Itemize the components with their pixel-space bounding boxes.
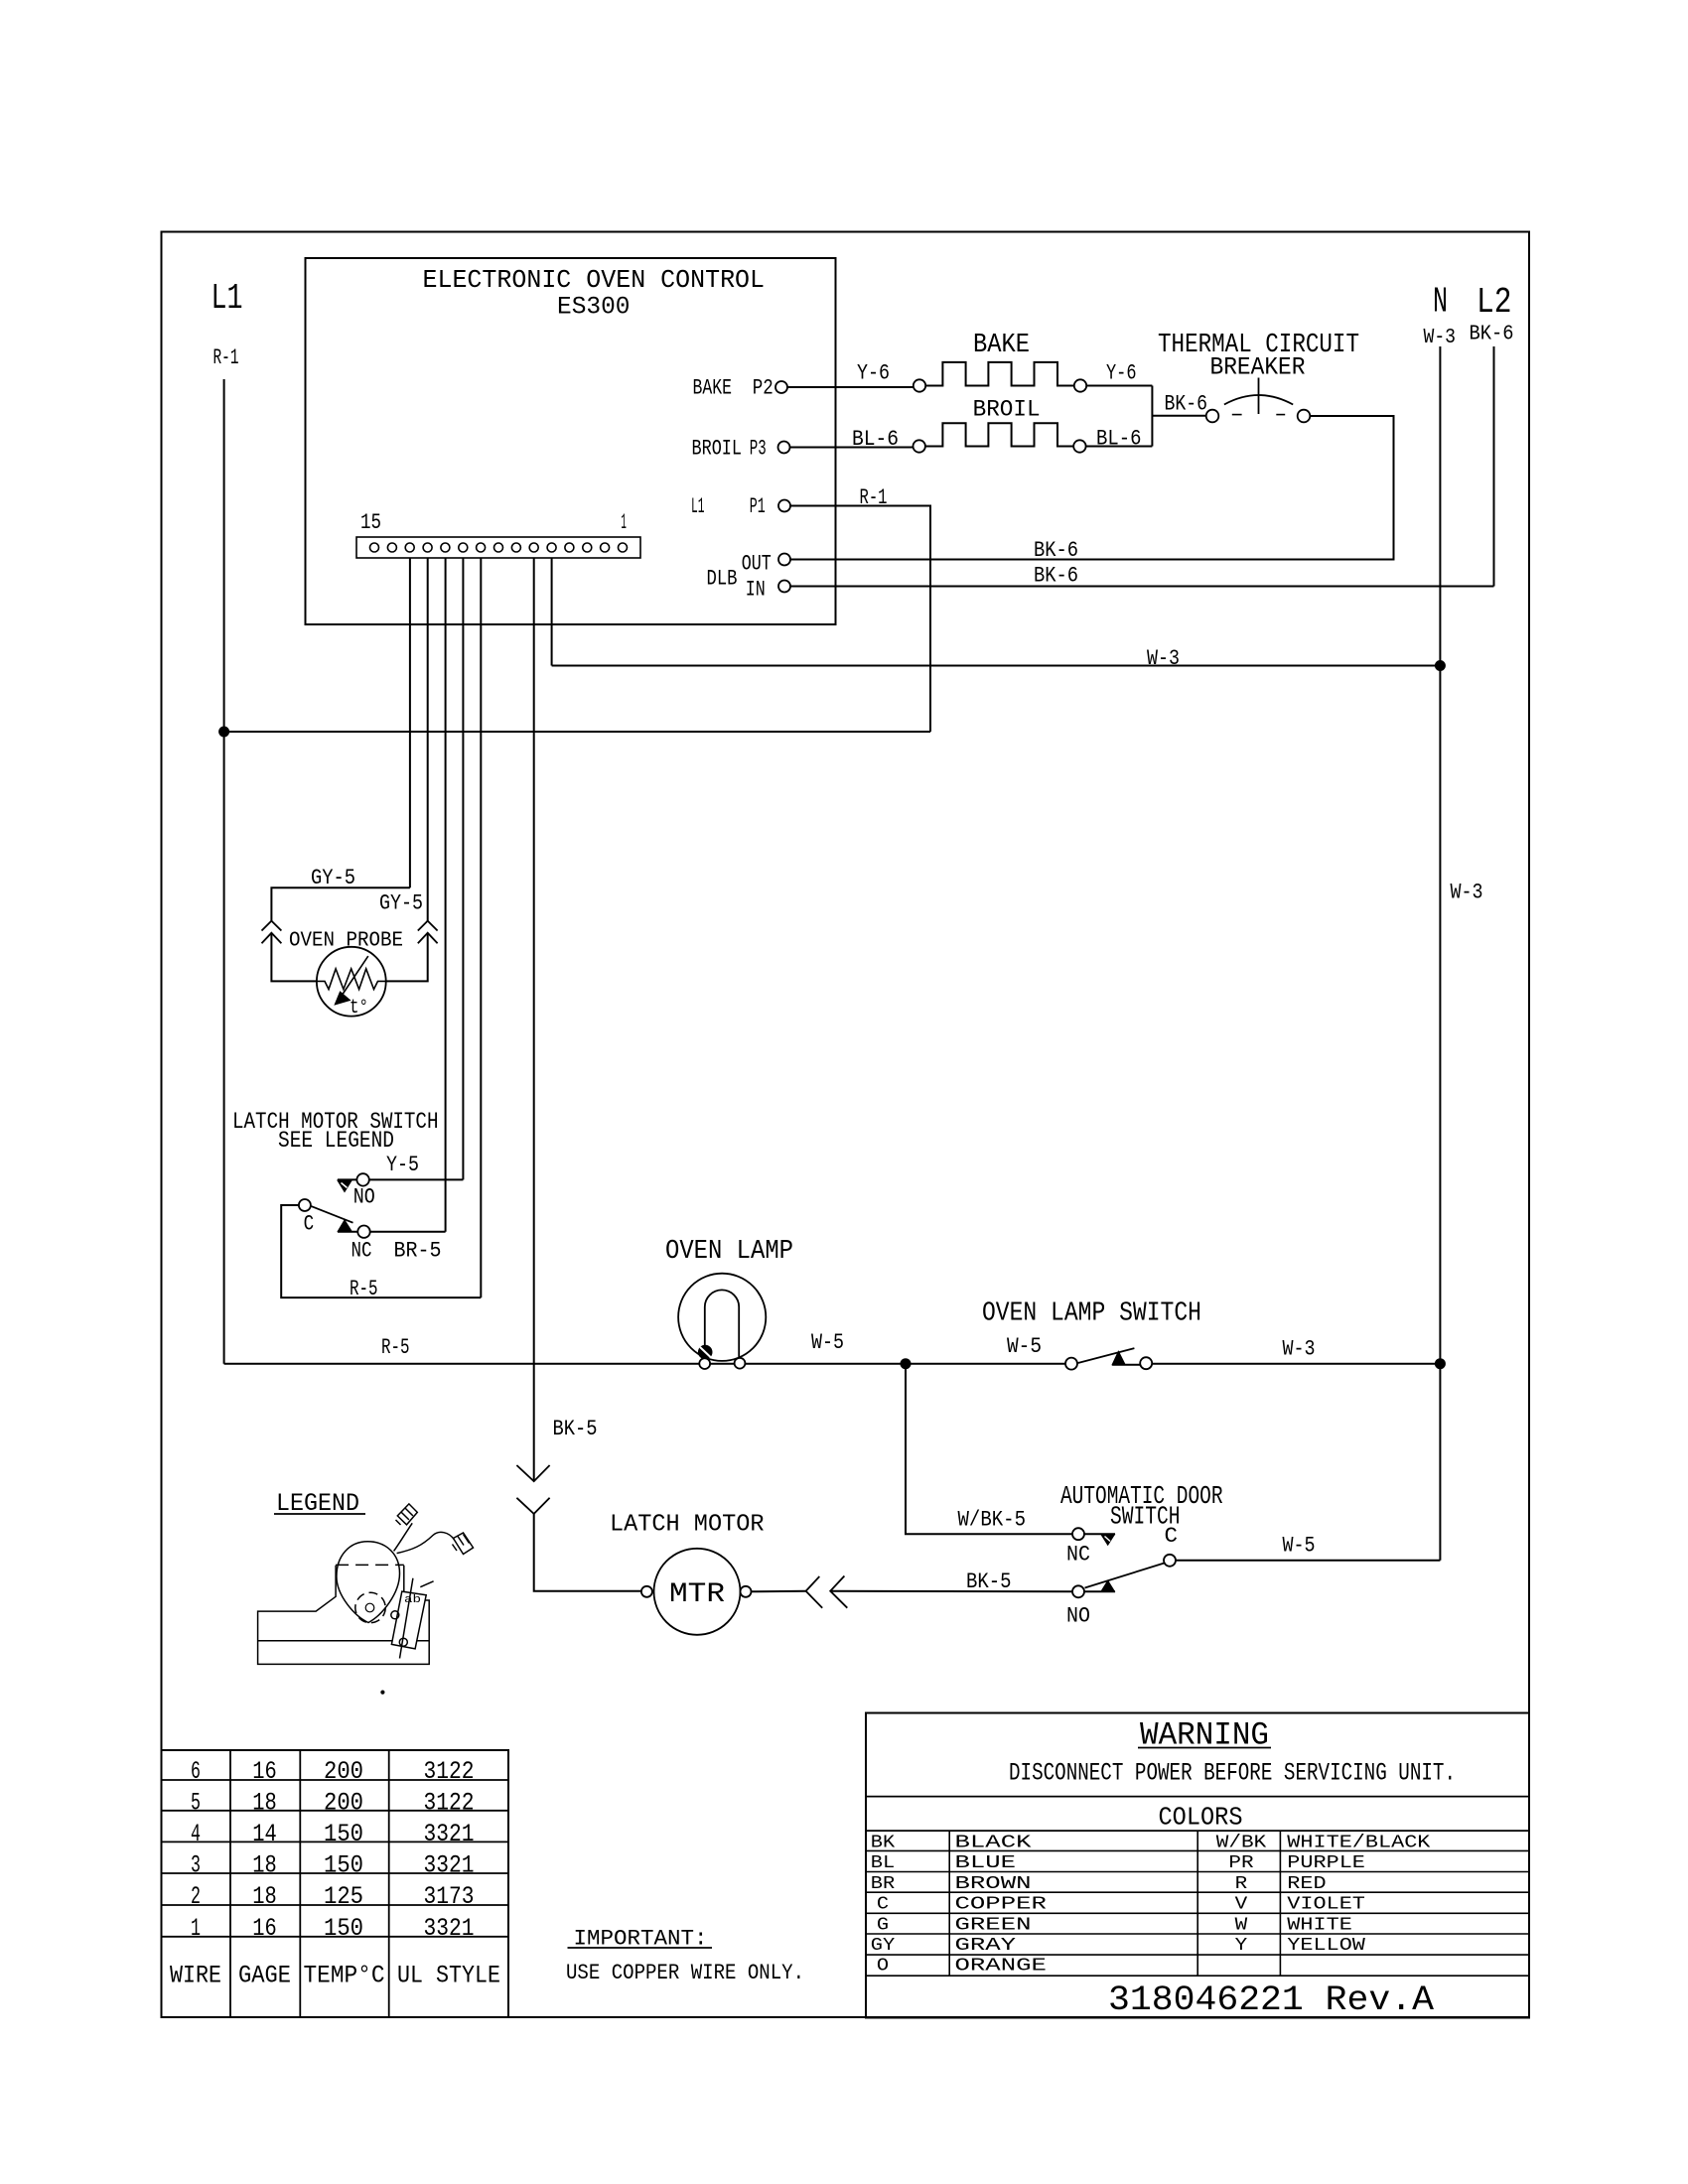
junction W-3 rail top xyxy=(1435,661,1445,671)
oven lamp switch S2 left terminal xyxy=(1065,1358,1077,1370)
door switch NC marker xyxy=(1101,1535,1115,1546)
lamp terminal right xyxy=(735,1358,746,1369)
svg-text:18: 18 xyxy=(252,1851,277,1880)
bake element left terminal xyxy=(914,379,925,391)
svg-text:OUT: OUT xyxy=(742,552,772,577)
wire BK-5 to latch motor xyxy=(534,1514,641,1591)
wire W-5 C to rail xyxy=(1176,1560,1440,1562)
svg-text:YELLOW: YELLOW xyxy=(1287,1936,1365,1956)
svg-text:Y-6: Y-6 xyxy=(1106,361,1137,386)
terminal P1 xyxy=(778,500,790,512)
oven lamp switch S2 right terminal xyxy=(1140,1357,1152,1369)
svg-text:R-1: R-1 xyxy=(213,345,239,370)
svg-text:W-3: W-3 xyxy=(1147,646,1180,671)
wire door NC stub xyxy=(1084,1533,1115,1535)
svg-text:16: 16 xyxy=(252,1757,277,1786)
terminal P3 xyxy=(778,442,790,454)
svg-text:UL STYLE: UL STYLE xyxy=(397,1962,500,1990)
legend reference dot xyxy=(381,1691,384,1694)
wire latch NC to pin5 xyxy=(370,1231,446,1233)
svg-text:3: 3 xyxy=(191,1851,201,1880)
svg-text:BL: BL xyxy=(871,1853,895,1873)
svg-text:BR: BR xyxy=(871,1874,896,1894)
svg-text:OVEN LAMP SWITCH: OVEN LAMP SWITCH xyxy=(982,1299,1201,1329)
terminal P2 xyxy=(775,381,787,393)
warning box xyxy=(866,1713,1529,2018)
probe thermistor zigzag xyxy=(317,969,386,990)
svg-text:MTR: MTR xyxy=(669,1579,725,1610)
svg-text:PR: PR xyxy=(1228,1853,1253,1873)
breaker actuator tick xyxy=(1258,378,1260,415)
broil element left terminal xyxy=(914,440,925,452)
wire latch NO to pin6 xyxy=(369,1178,463,1180)
svg-text:N: N xyxy=(1433,282,1448,323)
svg-text:BK-5: BK-5 xyxy=(966,1570,1012,1594)
svg-text:W-5: W-5 xyxy=(1283,1534,1316,1559)
svg-text:W/BK: W/BK xyxy=(1216,1834,1267,1853)
svg-text:BAKE: BAKE xyxy=(973,331,1030,360)
wire bake/broil junction vertical xyxy=(1151,386,1153,447)
terminal DLB IN xyxy=(778,581,790,593)
bake element right terminal xyxy=(1074,379,1086,391)
svg-text:5: 5 xyxy=(191,1788,201,1817)
svg-text:BAKE: BAKE xyxy=(693,376,733,401)
latch switch NC marker xyxy=(338,1220,352,1231)
wire pin10 drop BK-5 xyxy=(533,558,535,1481)
svg-text:W-3: W-3 xyxy=(1283,1337,1316,1362)
wire bake output xyxy=(1086,385,1152,387)
svg-text:3122: 3122 xyxy=(424,1757,475,1786)
wire R-5 L1 to lamp switch xyxy=(224,1363,1066,1365)
svg-text:WHITE/BLACK: WHITE/BLACK xyxy=(1287,1834,1430,1853)
wire N W-3 vertical rail xyxy=(1439,346,1441,1561)
svg-text:L1: L1 xyxy=(691,494,705,519)
wire pin3 drop GY-5 xyxy=(409,558,411,887)
svg-text:WHITE: WHITE xyxy=(1287,1915,1352,1935)
svg-text:16: 16 xyxy=(252,1914,277,1943)
svg-text:P3: P3 xyxy=(750,437,767,462)
wire pin6 drop Y-5 xyxy=(462,558,464,1179)
svg-text:3321: 3321 xyxy=(424,1851,475,1880)
svg-text:SEE LEGEND: SEE LEGEND xyxy=(278,1128,394,1154)
svg-text:O: O xyxy=(877,1957,889,1977)
wire BK-6 breaker to DLB OUT xyxy=(790,416,1394,560)
svg-text:R: R xyxy=(1235,1874,1248,1894)
svg-text:GREEN: GREEN xyxy=(955,1915,1032,1935)
oven lamp DS1 envelope xyxy=(678,1274,766,1361)
svg-text:2: 2 xyxy=(191,1882,201,1911)
svg-text:BL-6: BL-6 xyxy=(852,427,899,452)
svg-text:NO: NO xyxy=(1066,1604,1090,1629)
breaker CB1 left terminal xyxy=(1206,410,1219,423)
junction W-3 rail at lamp switch xyxy=(1435,1359,1445,1369)
svg-text:3321: 3321 xyxy=(424,1820,475,1848)
svg-text:C: C xyxy=(1165,1524,1179,1549)
svg-text:150: 150 xyxy=(324,1914,363,1943)
wire R-1 from P1 xyxy=(790,506,930,733)
svg-text:COPPER: COPPER xyxy=(955,1895,1048,1915)
warning box divider 2 xyxy=(866,1830,1529,1832)
svg-text:3122: 3122 xyxy=(424,1788,475,1817)
wire GY-5 left branch xyxy=(271,887,410,920)
svg-text:200: 200 xyxy=(324,1788,363,1817)
svg-text:200: 200 xyxy=(324,1757,363,1786)
svg-text:GAGE: GAGE xyxy=(238,1962,291,1990)
svg-text:18: 18 xyxy=(252,1882,277,1911)
latch motor left terminal xyxy=(641,1586,652,1597)
wire pin11 drop W-3 xyxy=(551,558,553,666)
latch switch NO marker xyxy=(338,1180,352,1192)
svg-text:TEMP°C: TEMP°C xyxy=(304,1962,385,1990)
wire gage table xyxy=(162,1750,509,2017)
latch switch S1 NC terminal xyxy=(357,1226,369,1238)
wire at lamp switch contact xyxy=(1112,1364,1140,1366)
svg-text:ES300: ES300 xyxy=(557,293,631,322)
svg-text:ab: ab xyxy=(404,1594,421,1606)
bake element R-BAKE heating coil xyxy=(925,362,1074,386)
lamp base dot xyxy=(698,1345,712,1359)
page border frame xyxy=(162,232,1530,2018)
wire pin5 drop BR-5 xyxy=(445,558,447,1232)
svg-text:3173: 3173 xyxy=(424,1882,475,1911)
probe arrowhead xyxy=(335,992,350,1005)
wire R-5 loop C to pin7 xyxy=(281,1205,481,1297)
svg-text:1: 1 xyxy=(621,510,627,535)
wire probe left lead xyxy=(271,933,317,982)
junction W-5 at lamp wire xyxy=(901,1359,911,1369)
svg-text:GY-5: GY-5 xyxy=(379,891,423,916)
wire pin7 drop R-5 xyxy=(480,558,482,1297)
svg-text:RED: RED xyxy=(1287,1874,1326,1894)
svg-text:ELECTRONIC OVEN CONTROL: ELECTRONIC OVEN CONTROL xyxy=(423,265,766,295)
oven probe RT1 body xyxy=(317,947,386,1017)
svg-text:PURPLE: PURPLE xyxy=(1287,1853,1365,1873)
WARNING underline xyxy=(1138,1747,1271,1749)
breaker CB1 right terminal xyxy=(1298,410,1311,423)
door switch S3 C terminal xyxy=(1164,1555,1176,1567)
junction L1 rail xyxy=(219,727,229,737)
wire door NO stub xyxy=(1084,1590,1115,1592)
svg-text:BL-6: BL-6 xyxy=(1096,427,1142,452)
wire BK-5 break to door NO xyxy=(830,1590,1072,1593)
LEGEND underline xyxy=(274,1513,365,1515)
svg-text:NC: NC xyxy=(352,1239,372,1264)
svg-text:W-5: W-5 xyxy=(1007,1334,1042,1359)
door switch blade NO-C xyxy=(1085,1564,1165,1588)
svg-text:4: 4 xyxy=(191,1820,201,1848)
connector strip J1 xyxy=(356,537,640,558)
electronic oven control box U1 xyxy=(306,258,836,624)
svg-text:DISCONNECT POWER BEFORE SERVIC: DISCONNECT POWER BEFORE SERVICING UNIT. xyxy=(1009,1759,1456,1788)
svg-text:USE COPPER WIRE ONLY.: USE COPPER WIRE ONLY. xyxy=(566,1961,804,1985)
colors table grid xyxy=(866,1849,1529,1851)
svg-text:L1: L1 xyxy=(211,278,243,319)
breaker contact dash left xyxy=(1232,414,1242,416)
svg-text:BROWN: BROWN xyxy=(955,1874,1032,1894)
svg-text:DLB: DLB xyxy=(707,567,738,592)
svg-text:318046221 Rev.A: 318046221 Rev.A xyxy=(1108,1980,1434,2020)
svg-text:150: 150 xyxy=(324,1851,363,1880)
warning box divider 1 xyxy=(866,1796,1529,1798)
latch motor MTR body xyxy=(654,1549,741,1635)
svg-text:NO: NO xyxy=(353,1185,375,1210)
wire broil output xyxy=(1086,446,1153,448)
svg-text:NC: NC xyxy=(1066,1543,1090,1568)
svg-text:C: C xyxy=(304,1212,315,1237)
svg-text:R-5: R-5 xyxy=(381,1335,410,1360)
breaker bimetal arc xyxy=(1224,395,1293,405)
broil element R-BROIL heating coil xyxy=(925,423,1073,446)
legend latch assembly art xyxy=(258,1504,474,1665)
svg-text:W/BK-5: W/BK-5 xyxy=(958,1508,1027,1533)
svg-text:BK-5: BK-5 xyxy=(553,1417,598,1441)
breaker contact dash right xyxy=(1276,414,1285,416)
svg-text:BROIL: BROIL xyxy=(973,396,1041,422)
terminal DLB OUT xyxy=(778,554,790,566)
connector chevrons BK-5 vertical break xyxy=(516,1465,549,1481)
broil element right terminal xyxy=(1073,440,1085,452)
door switch S3 NC terminal xyxy=(1072,1528,1084,1540)
svg-text:BLACK: BLACK xyxy=(955,1834,1032,1853)
svg-text:P2: P2 xyxy=(753,376,774,401)
svg-text:Y-5: Y-5 xyxy=(386,1153,419,1177)
svg-text:BK-6: BK-6 xyxy=(1034,538,1078,563)
svg-text:W-3: W-3 xyxy=(1424,327,1457,349)
oven lamp switch blade xyxy=(1078,1348,1135,1363)
svg-text:15: 15 xyxy=(360,510,381,535)
wire L1 vertical rail xyxy=(223,379,225,1364)
svg-text:IN: IN xyxy=(746,578,766,603)
svg-text:R-1: R-1 xyxy=(860,485,888,510)
oven lamp filament loop xyxy=(705,1290,739,1361)
svg-text:L2: L2 xyxy=(1477,282,1512,323)
svg-text:OVEN PROBE: OVEN PROBE xyxy=(289,930,403,953)
wire P2 to Y-6 terminal xyxy=(787,386,914,388)
svg-text:LATCH MOTOR: LATCH MOTOR xyxy=(610,1512,765,1539)
wire BK-6 DLB IN to L2 xyxy=(790,586,1494,588)
wire L1 junction horizontal xyxy=(224,731,930,733)
svg-text:BK: BK xyxy=(871,1834,896,1853)
svg-text:G: G xyxy=(877,1915,889,1935)
wire to breaker xyxy=(1152,415,1205,417)
svg-text:ORANGE: ORANGE xyxy=(955,1957,1047,1977)
connector chevrons oven probe left xyxy=(262,921,282,931)
svg-text:Y-6: Y-6 xyxy=(857,361,890,386)
svg-text:BK-6: BK-6 xyxy=(1165,392,1208,417)
svg-text:3321: 3321 xyxy=(424,1914,475,1943)
wire latch NO stub xyxy=(338,1178,356,1180)
IMPORTANT underline xyxy=(568,1947,713,1949)
svg-text:P1: P1 xyxy=(750,494,766,519)
wire P3 to BL-6 terminal xyxy=(790,447,914,449)
wire L2 BK-6 vertical xyxy=(1493,346,1495,587)
svg-text:Y: Y xyxy=(1235,1936,1248,1956)
probe variable arrow shaft xyxy=(342,956,368,996)
connector chevrons BK-5 horizontal break xyxy=(806,1576,823,1608)
svg-text:R-5: R-5 xyxy=(350,1277,378,1301)
svg-text:GRAY: GRAY xyxy=(955,1936,1017,1956)
door switch NO marker xyxy=(1101,1580,1115,1591)
wire W-3 lamp switch to rail xyxy=(1152,1363,1440,1365)
svg-text:BK-6: BK-6 xyxy=(1034,564,1078,589)
latch switch blade C-NC xyxy=(311,1206,352,1223)
svg-text:GY: GY xyxy=(871,1936,896,1956)
svg-text:V: V xyxy=(1235,1895,1248,1915)
svg-text:1: 1 xyxy=(191,1914,201,1943)
latch switch S1 C terminal xyxy=(299,1199,311,1211)
svg-text:18: 18 xyxy=(252,1788,277,1817)
latch motor right terminal xyxy=(741,1586,752,1597)
door switch S3 NO terminal xyxy=(1072,1585,1084,1597)
wire probe right lead xyxy=(386,933,428,982)
svg-text:BK-6: BK-6 xyxy=(1470,324,1514,346)
wire W/BK-5 to door switch NC xyxy=(906,1364,1072,1535)
connector strip pins 15..1 xyxy=(370,543,379,552)
wire latch NC stub xyxy=(338,1231,357,1233)
svg-text:t°: t° xyxy=(350,997,368,1020)
svg-text:BLUE: BLUE xyxy=(955,1853,1017,1873)
svg-text:W-5: W-5 xyxy=(811,1330,844,1355)
svg-text:14: 14 xyxy=(252,1820,277,1848)
svg-text:BR-5: BR-5 xyxy=(394,1239,442,1264)
svg-text:BREAKER: BREAKER xyxy=(1210,353,1306,382)
svg-text:150: 150 xyxy=(324,1820,363,1848)
lamp terminal left xyxy=(699,1358,710,1369)
svg-text:BROIL: BROIL xyxy=(692,437,743,462)
svg-text:WIRE: WIRE xyxy=(170,1962,221,1990)
oven lamp switch contact marker xyxy=(1112,1351,1125,1365)
wire pin4 drop GY-5 xyxy=(427,558,429,921)
connector chevrons oven probe right xyxy=(418,921,438,931)
svg-text:VIOLET: VIOLET xyxy=(1287,1895,1365,1915)
svg-text:125: 125 xyxy=(324,1882,363,1911)
wire W-3 from pin 11 xyxy=(552,665,1441,667)
svg-text:W-3: W-3 xyxy=(1451,881,1483,905)
svg-text:OVEN LAMP: OVEN LAMP xyxy=(665,1237,793,1267)
wire motor to break xyxy=(752,1590,806,1593)
svg-text:W: W xyxy=(1235,1915,1248,1935)
svg-text:6: 6 xyxy=(191,1757,201,1786)
latch switch S1 NO terminal xyxy=(356,1173,368,1185)
svg-text:COLORS: COLORS xyxy=(1159,1803,1243,1833)
svg-text:C: C xyxy=(877,1895,889,1915)
